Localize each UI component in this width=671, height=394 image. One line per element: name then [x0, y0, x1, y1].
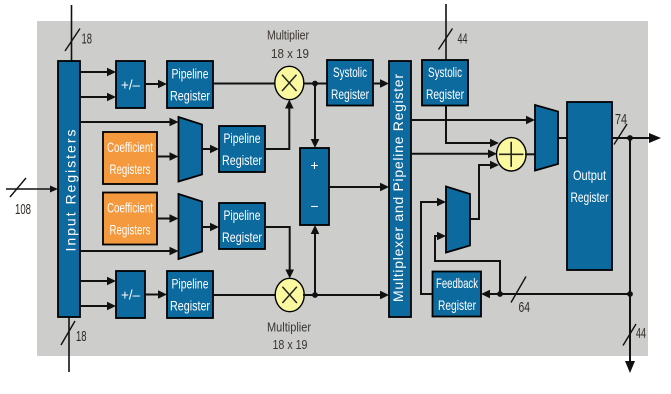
wire: 64-bit feedback line to feedback register [481, 277, 630, 317]
register: Coefficient Registers 1 [103, 132, 157, 184]
svg-text:18: 18 [82, 31, 93, 48]
wire: accumulator adder to mux M3 [525, 153, 535, 155]
wire: multiplexer box to mux M3 [411, 116, 535, 125]
register: Coefficient Registers 2 [103, 193, 157, 245]
multiplier 1 [275, 66, 304, 99]
svg-text:Systolic: Systolic [428, 64, 462, 80]
svg-text:Coefficient: Coefficient [107, 139, 153, 155]
svg-text:44: 44 [636, 325, 646, 342]
wire: pipeline register 1 to multiplier 1 [213, 83, 276, 85]
wire: 44-bit top input [439, 4, 468, 60]
svg-text:Register: Register [222, 152, 262, 168]
svg-text:−: − [310, 198, 318, 214]
wire: mux M2 to pipeline register 3 [202, 223, 219, 232]
wire: coefficient registers 1 to mux M1 lower input [157, 152, 179, 161]
wire: feedback register to mux M4 upper input [421, 198, 446, 294]
DSP block boundary [37, 21, 648, 356]
wire: node to adder top input [311, 84, 320, 149]
svg-text:+/–: +/– [121, 77, 140, 93]
wire: 18-bit bottom cascade output [61, 317, 87, 372]
svg-text:Register: Register [571, 189, 609, 205]
wire: mux M4 to accumulator adder [470, 161, 499, 219]
register: Multiplexer and Pipeline Register [389, 61, 411, 317]
wire: top adder/sub to pipeline register 1 [145, 80, 167, 89]
wire: bottom adder/sub to pipeline register 4 [145, 290, 167, 299]
wire: input reg to mux M1 upper input [80, 118, 179, 127]
multiplier 2 label [267, 320, 312, 353]
svg-text:Register: Register [170, 298, 210, 314]
svg-text:18: 18 [76, 328, 87, 345]
svg-text:+/–: +/– [121, 287, 140, 303]
wire: multiplier 2 to multiplexer box with node [303, 291, 389, 300]
svg-text:Pipeline: Pipeline [172, 276, 209, 292]
register: Pipeline Register 1 [167, 61, 213, 108]
adder/subtractor +/- bottom [116, 271, 145, 318]
wire: pipeline register 2 to multiplier 1 bottom input [265, 100, 294, 150]
wire: input reg to mux M2 lower input [80, 247, 179, 256]
register: Output Register [567, 102, 612, 270]
register: Feedback Register [433, 272, 482, 317]
wire: 18-bit top input [65, 5, 92, 61]
wire: ALU to multiplexer box [329, 183, 389, 192]
wire: mux M1 to pipeline register 2 [202, 145, 219, 154]
wire: feedback line branch to mux M4 lower input [435, 232, 500, 294]
wire: 44-bit bottom output [623, 294, 646, 373]
wire: 108-bit input bus [6, 178, 58, 218]
mux M1 [179, 117, 203, 182]
wire: multiplier 1 to systolic register 1 with node [303, 81, 327, 87]
multiplier 1 label [267, 28, 310, 62]
svg-text:Registers: Registers [110, 222, 151, 238]
mux M4 [446, 187, 470, 253]
svg-text:Multiplexer and Pipeline Regis: Multiplexer and Pipeline Register [390, 74, 406, 302]
svg-text:Register: Register [170, 88, 210, 104]
svg-text:Register: Register [438, 297, 476, 313]
wire: coefficient registers 2 to mux M2 upper input [157, 214, 179, 223]
svg-text:Multiplier: Multiplier [267, 28, 310, 43]
svg-text:18 x 19: 18 x 19 [273, 337, 308, 352]
svg-text:Pipeline: Pipeline [172, 66, 209, 82]
svg-text:Registers: Registers [110, 161, 151, 177]
wire: pipeline register 4 to multiplier 2 [213, 294, 276, 296]
svg-text:108: 108 [15, 201, 31, 218]
register: Pipeline Register 3 [219, 203, 265, 249]
svg-text:Pipeline: Pipeline [224, 207, 261, 223]
wire: systolic register 2 to accumulator adder [446, 106, 499, 148]
accumulator adder circle [497, 138, 527, 171]
register: Systolic Register 2 [422, 60, 468, 106]
svg-text:Register: Register [331, 86, 369, 102]
wire: input reg to bottom adder/sub input 2 [80, 302, 116, 311]
wire: pipeline register 3 to multiplier 2 top input [265, 227, 294, 279]
svg-text:Systolic: Systolic [333, 64, 367, 80]
mux M2 [179, 194, 203, 259]
register: Input Registers [58, 61, 80, 317]
svg-text:Register: Register [426, 86, 464, 102]
svg-text:Feedback: Feedback [436, 275, 479, 291]
svg-text:Output: Output [573, 167, 606, 183]
svg-text:Register: Register [222, 229, 262, 245]
wire: mux M3 to output register [558, 137, 567, 139]
wire: multiplexer box to accumulator adder [411, 150, 497, 159]
mux M3 [535, 105, 558, 171]
multiplier 2 [275, 278, 304, 311]
register: Pipeline Register 4 [167, 271, 213, 318]
svg-text:44: 44 [458, 31, 468, 48]
svg-text:Coefficient: Coefficient [107, 200, 153, 216]
svg-text:Multiplier: Multiplier [267, 320, 312, 335]
svg-text:Pipeline: Pipeline [224, 130, 261, 146]
adder/subtractor +/- top [116, 61, 145, 108]
wire: systolic register 1 to multiplexer box [373, 79, 389, 88]
wire: input reg to top adder/sub input 2 [80, 93, 116, 102]
wire: input reg to bottom adder/sub input 1 [80, 277, 116, 286]
svg-text:+: + [310, 157, 318, 173]
svg-text:Input Registers: Input Registers [63, 130, 79, 252]
svg-text:74: 74 [615, 111, 627, 128]
wire: 74-bit output with node [612, 111, 661, 145]
wire: input reg to top adder/sub input 1 [80, 68, 116, 77]
svg-text:64: 64 [519, 299, 531, 316]
svg-text:18 x 19: 18 x 19 [271, 46, 309, 61]
wire: node to adder bottom input [311, 225, 320, 295]
wire: output node down to feedback line [627, 138, 633, 297]
register: Systolic Register 1 [327, 60, 373, 106]
register: Pipeline Register 2 [219, 126, 265, 172]
adder/subtractor ALU box [300, 148, 329, 225]
